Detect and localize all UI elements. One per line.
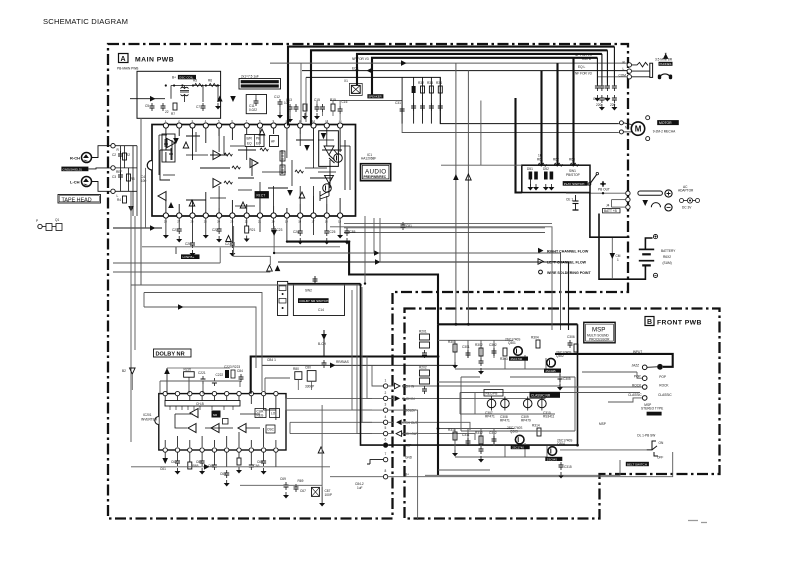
svg-text:DC 3V: DC 3V (682, 206, 692, 210)
U1 internal amp A9 (299, 192, 305, 198)
svg-text:SPEAKER: SPEAKER (368, 95, 381, 99)
IC pin numbers bottom (164, 220, 342, 224)
LOW B+ label (176, 247, 200, 259)
svg-text:R301: R301 (448, 340, 456, 344)
svg-text:R32: R32 (418, 81, 424, 85)
front input bus (555, 354, 673, 367)
svg-text:C63: C63 (196, 460, 202, 464)
svg-text:C52: C52 (604, 97, 610, 101)
U201 top pins (163, 391, 278, 395)
link pin2 riser (366, 357, 368, 391)
dolby top rail heavy (251, 357, 438, 394)
svg-text:L-CH OUT: L-CH OUT (403, 421, 418, 425)
motor RC string 4 (427, 77, 434, 123)
tone jack JAZZ (632, 364, 648, 370)
U1 internal amp A7 (250, 159, 258, 168)
oscillator section box (137, 71, 221, 118)
bus wire to switch v3 (572, 58, 574, 165)
signal vert to switch (441, 101, 522, 166)
svg-text:ADAPTOR: ADAPTOR (678, 189, 694, 193)
svg-text:R21: R21 (250, 228, 256, 232)
battery J4 label (603, 204, 621, 214)
signal vert L to front-1 (453, 63, 459, 324)
above-IC caps row pins 9-12 (314, 98, 348, 120)
front left coupling parts 2 (419, 366, 430, 395)
battery supply loop (599, 214, 653, 280)
above-IC wires pins 9-14 (317, 101, 340, 121)
U201 internal filter bar (165, 401, 240, 411)
svg-text:C25: C25 (330, 230, 336, 234)
svg-text:P: P (36, 219, 38, 223)
U201 interior wires (165, 396, 276, 447)
svg-text:C311: C311 (462, 433, 470, 437)
down arrow node (230, 96, 236, 102)
board entry node R (111, 144, 115, 148)
svg-text:3300P: 3300P (305, 385, 314, 389)
under-IC pin stubs (166, 218, 340, 242)
junction dots mid (273, 240, 579, 446)
U1 internal amp A5 (213, 179, 221, 188)
wire R-CH to board (92, 146, 111, 158)
AC adaptor note (678, 185, 700, 210)
bypass cap C21 (172, 226, 182, 243)
dolby sw cap C14 (313, 276, 318, 284)
electrolytic C26 (185, 240, 196, 257)
osc cap C7 (196, 103, 206, 111)
filter C80 (305, 366, 316, 391)
left rail arrow (128, 206, 134, 212)
svg-text:C24: C24 (293, 230, 299, 234)
U201 gain block (212, 411, 221, 418)
dolby B+ arrow drop (318, 330, 327, 368)
DOLBY NR label (154, 349, 192, 358)
under dolby cap C66 (249, 462, 260, 470)
svg-text:C2: C2 (112, 153, 116, 157)
signal vert L to front-2 (466, 71, 472, 325)
U1 resistor r-int1 (224, 153, 232, 156)
DC jack arc (651, 203, 660, 208)
svg-text:R2: R2 (126, 153, 130, 157)
cap CE1 (566, 195, 579, 210)
wire L-CH to board (92, 182, 111, 192)
osc resistor R5 (193, 79, 203, 87)
under dolby cap C64 (208, 462, 217, 470)
left vert rail to dolby (131, 191, 135, 442)
U1 extra res marks (232, 148, 303, 173)
svg-text:C3: C3 (112, 175, 116, 179)
cap C25 (324, 228, 336, 245)
AUDIO block label (361, 153, 391, 181)
svg-text:2SC1740S: 2SC1740S (507, 426, 522, 430)
left feed rail 2 (145, 168, 147, 228)
svg-text:R80: R80 (293, 367, 299, 371)
svg-text:LO: LO (271, 412, 276, 416)
bus wire main B+ to switch (516, 98, 522, 193)
bottom rail to pin8 (240, 484, 322, 486)
U1 internal amp A3 (173, 138, 179, 144)
motor RC string 5 (436, 77, 443, 123)
tone select label box (484, 390, 503, 397)
under dolby stubs (165, 453, 276, 467)
svg-text:OSC: OSC (267, 428, 275, 432)
left feed rail (140, 118, 142, 285)
input res R4 (117, 196, 127, 203)
svg-text:D51: D51 (527, 167, 533, 171)
svg-text:L-CH IN: L-CH IN (403, 385, 415, 389)
svg-text:C61: C61 (160, 467, 166, 471)
battery holder pill (638, 191, 663, 195)
svg-text:Q302: Q302 (556, 354, 564, 358)
svg-text:B+: B+ (405, 473, 409, 477)
svg-text:2SC1740S: 2SC1740S (556, 351, 571, 355)
vcc drop wire (271, 226, 277, 253)
svg-text:C67: C67 (300, 489, 306, 493)
cap C23 (271, 226, 282, 234)
svg-text:STEREO TYPE: STEREO TYPE (641, 407, 663, 411)
front transistor Q304 (545, 439, 572, 462)
svg-text:M: M (635, 125, 642, 134)
svg-text:C31: C31 (395, 101, 401, 105)
front lower cap C312 (489, 431, 497, 444)
svg-text:MOTOR: MOTOR (659, 121, 672, 125)
U1 internal amp A12 (168, 202, 174, 208)
svg-text:EQ: EQ (247, 142, 252, 146)
svg-text:R4: R4 (117, 198, 121, 202)
svg-text:7: 7 (385, 452, 387, 456)
tone jack ROCK (632, 383, 669, 389)
aux return rail (113, 271, 270, 273)
osc bus wire (171, 86, 221, 103)
ground sense wire CM1 (610, 237, 621, 279)
svg-text:NF FOR V3: NF FOR V3 (575, 72, 592, 76)
svg-text:GND(SHIELD): GND(SHIELD) (63, 167, 83, 171)
svg-text:22: 22 (165, 110, 169, 114)
dolby input feed upper (144, 293, 262, 392)
svg-text:4: 4 (385, 415, 387, 419)
svg-text:R311: R311 (448, 428, 456, 432)
svg-text:C64: C64 (208, 464, 214, 468)
switch diode cluster D52 (543, 167, 555, 191)
op-amp IC U1 main body (147, 125, 355, 217)
svg-text:INVERTER: INVERTER (141, 418, 158, 422)
DC jack terminals (626, 191, 630, 209)
cap C85 (344, 228, 356, 245)
svg-text:3: 3 (385, 403, 387, 407)
switch lever (588, 172, 598, 185)
L-ch signal to front (278, 259, 569, 330)
front upper amp input network (438, 340, 546, 382)
svg-text:R-CH IN: R-CH IN (403, 397, 416, 401)
wire shield to board (88, 168, 110, 169)
tone jack POP (634, 375, 666, 381)
res cluster R223 (224, 365, 240, 378)
board entry node L (111, 189, 115, 193)
svg-text:R6: R6 (208, 79, 212, 83)
svg-text:RP471: RP471 (500, 419, 510, 423)
input cap C2 (112, 151, 123, 159)
front lower cap C311 (462, 433, 471, 446)
mid return rail (131, 284, 361, 286)
svg-text:8: 8 (385, 469, 387, 473)
svg-text:NF FOR V3: NF FOR V3 (352, 57, 369, 61)
U1 interior wiring (160, 128, 345, 213)
svg-text:C51: C51 (593, 97, 599, 101)
svg-text:R6X2: R6X2 (663, 255, 671, 259)
phones label (655, 53, 673, 66)
tone ecap CE304 (538, 397, 555, 419)
input coupling network wires (115, 146, 137, 216)
U1 internal amp A4 (213, 151, 221, 160)
svg-text:R312: R312 (475, 431, 483, 435)
front left coupling parts (419, 330, 430, 359)
svg-text:OSC COIL: OSC COIL (179, 76, 194, 80)
wire L playback to phone jack (302, 66, 627, 73)
TAPE HEAD label (58, 195, 101, 204)
top cluster caps near pin9 (286, 98, 299, 123)
svg-text:R7: R7 (171, 112, 175, 116)
oscillator transformer T1 (180, 87, 189, 96)
U201 part number (141, 413, 158, 422)
svg-text:R314: R314 (532, 424, 540, 428)
U201 bottom pins (163, 448, 278, 452)
svg-text:2x1=7.5 1uF: 2x1=7.5 1uF (241, 75, 259, 79)
svg-text:C306: C306 (567, 335, 575, 339)
gnd under pin28 (337, 232, 343, 239)
link heavy ref wire (361, 284, 384, 446)
svg-text:R65: R65 (193, 464, 199, 468)
OSC COIL label (172, 75, 196, 80)
gnd under pin15 (163, 232, 169, 239)
svg-text:M+: M+ (625, 126, 630, 130)
svg-text:C21: C21 (172, 228, 178, 232)
svg-text:LOW B+: LOW B+ (183, 255, 195, 259)
crystal filter X1 (344, 79, 362, 95)
mute sense arrow (226, 236, 232, 242)
input cap C3 (112, 172, 123, 180)
osc row junction dots (165, 84, 219, 86)
motor RC string 1 (395, 77, 405, 123)
legend right channel flow (538, 248, 589, 254)
svg-text:IC201: IC201 (143, 413, 152, 417)
res R220 (184, 368, 195, 394)
svg-text:B/R: B/R (247, 137, 253, 141)
svg-text:CE 1: CE 1 (566, 198, 573, 202)
battery text (661, 249, 676, 265)
svg-text:C66: C66 (254, 464, 260, 468)
phone jack decoupling caps C51-C54 (597, 47, 627, 83)
low B+ rail (142, 246, 340, 248)
bottom-left link note (355, 482, 364, 490)
svg-text:GND: GND (405, 456, 413, 460)
svg-text:CLASSIC: CLASSIC (658, 393, 672, 397)
tone ecap CE303 (521, 397, 532, 423)
gray feed lines above dolby (160, 378, 290, 394)
svg-text:MAIN PWB: MAIN PWB (135, 57, 174, 64)
input label cluster (141, 175, 147, 183)
U1 transistor q-int2 (323, 184, 332, 193)
svg-text:REF: REF (116, 170, 122, 174)
svg-text:DL 1-PB SW: DL 1-PB SW (637, 434, 655, 438)
cap C81 (401, 222, 413, 230)
svg-text:2SC1740S: 2SC1740S (505, 338, 520, 342)
svg-text:RS3411: RS3411 (543, 415, 555, 419)
svg-text:C27: C27 (225, 242, 231, 246)
svg-text:C80: C80 (305, 366, 311, 370)
svg-text:CB4 1: CB4 1 (267, 358, 276, 362)
R-ch signal to front (274, 250, 560, 330)
pcb cut marks (688, 521, 707, 523)
svg-text:PB-MAIN PWB: PB-MAIN PWB (117, 67, 138, 71)
link wires right side (388, 370, 673, 520)
main PWB dash-dot border (108, 44, 628, 519)
motor RC string 3 (418, 77, 425, 123)
svg-text:DOLBY NR SWITCH: DOLBY NR SWITCH (300, 299, 329, 303)
U1 block RECT (255, 192, 269, 199)
switch feed resistor R61 (537, 154, 546, 167)
svg-text:R3: R3 (131, 177, 135, 181)
svg-text:C315: C315 (564, 465, 572, 469)
front transistor Q302 (544, 351, 571, 374)
link arrows and labels (395, 383, 415, 389)
dolby input feed lower (144, 293, 256, 369)
IC pin numbers top (165, 119, 342, 123)
svg-text:C312: C312 (489, 431, 497, 435)
tone jack wires (560, 372, 642, 402)
input res R2 (123, 153, 131, 160)
U201 mod square (223, 419, 229, 425)
front transistor Q301 (505, 338, 528, 362)
svg-text:POP: POP (659, 375, 666, 379)
U1 left input cell (162, 134, 175, 162)
label A MAIN PWB (117, 54, 174, 71)
dolby supply cluster top left (164, 368, 230, 394)
gnd under pin18 (203, 232, 209, 239)
svg-text:HA12068F: HA12068F (361, 157, 376, 161)
wire R playback to phone jack (270, 57, 627, 66)
PB OUT solder point (598, 181, 610, 191)
cap C222 (212, 373, 223, 386)
motor RC string 2 (411, 77, 416, 123)
battery cell symbol BT1 (639, 249, 654, 265)
U1 internal amp A10 (304, 145, 310, 151)
link pin1 riser (371, 365, 373, 381)
switch diode cluster D51 (527, 167, 539, 191)
front upper out caps (567, 335, 578, 352)
DC in diode arrow (642, 200, 648, 206)
svg-text:C5: C5 (145, 104, 149, 108)
svg-text:R303: R303 (500, 357, 508, 361)
svg-text:Q304: Q304 (557, 442, 565, 446)
tone jack CLASSIC (628, 393, 672, 400)
front B+ bus (438, 324, 578, 475)
switch feed resistor R62 (553, 158, 562, 167)
speaker select label (367, 94, 383, 98)
svg-text:5: 5 (385, 426, 387, 430)
external remote jack cluster (36, 218, 62, 231)
osc cap C5 (145, 103, 155, 111)
osc res R7 (171, 103, 177, 116)
IC U1 bottom pins 15-28 (163, 213, 342, 218)
board entry node shield (111, 166, 115, 170)
play switch label (563, 169, 588, 186)
dolby IC U201 body (155, 394, 286, 450)
power switch box SW1 (522, 165, 590, 192)
U1 internal amp A11 (189, 200, 195, 206)
svg-text:EQ L: EQ L (352, 66, 359, 70)
link wires left side (330, 285, 383, 477)
svg-text:PRE/PWR/REC: PRE/PWR/REC (364, 175, 387, 179)
svg-text:220: 220 (596, 103, 602, 107)
svg-text:R50 B: R50 B (582, 57, 591, 61)
svg-text:2SC945: 2SC945 (546, 369, 557, 373)
svg-text:C22: C22 (212, 228, 218, 232)
svg-text:RP479: RP479 (521, 419, 531, 423)
res R21 (244, 226, 256, 242)
svg-text:CH-B: CH-B (196, 402, 204, 406)
C67 filter (300, 405, 332, 507)
svg-text:R220: R220 (184, 368, 192, 372)
svg-text:C7: C7 (196, 105, 200, 109)
front PWB dash-dot border (405, 309, 720, 519)
svg-text:C16: C16 (342, 100, 348, 104)
svg-text:AF: AF (271, 140, 275, 144)
svg-text:C62: C62 (171, 460, 177, 464)
board-link connector pins 1-8 (383, 379, 388, 479)
svg-text:J4: J4 (606, 204, 610, 208)
dolby switch SW2 (293, 284, 344, 316)
svg-text:R-CH OUT: R-CH OUT (403, 432, 419, 436)
front upper res R301 (448, 340, 458, 369)
cap C24 (293, 228, 303, 245)
power return bus (590, 193, 630, 238)
svg-text:C12: C12 (274, 95, 280, 99)
switch feed resistor R63 (569, 158, 578, 167)
front bottom return wire (425, 460, 620, 475)
U1 resistor network r-int3 (280, 151, 285, 161)
tape select network box (246, 95, 266, 114)
svg-text:BATT +B: BATT +B (604, 209, 617, 213)
U201 amp A201 (190, 409, 198, 418)
svg-text:2: 2 (385, 391, 387, 395)
svg-text:RR/BIAS: RR/BIAS (336, 360, 349, 364)
dolby left feed arrow (122, 368, 135, 390)
svg-text:SW2: SW2 (305, 289, 312, 293)
drop to triangles (234, 226, 271, 265)
cap C221 (198, 371, 206, 394)
dolby out coupling wires (286, 398, 372, 433)
headphone icon (658, 74, 672, 79)
svg-text:C221: C221 (198, 371, 206, 375)
tape head L-CH terminal (70, 177, 92, 187)
svg-text:MSP: MSP (592, 327, 605, 334)
U1 resistor network r-int4 (280, 165, 285, 175)
rec/pb select switch label box (239, 75, 281, 90)
front lower bias parts (478, 424, 572, 479)
svg-text:X1: X1 (344, 79, 348, 83)
plus terminal (665, 190, 672, 197)
front lower res R312 (475, 431, 483, 444)
svg-text:BELT SWITCH: BELT SWITCH (627, 462, 647, 466)
U1 output amp lower (320, 175, 334, 201)
svg-text:Q1: Q1 (55, 218, 59, 222)
label B FRONT PWB (645, 317, 702, 327)
front transistor Q303 (507, 426, 530, 450)
svg-text:TAPE HEAD: TAPE HEAD (62, 197, 92, 203)
legend left channel flow (538, 259, 587, 265)
svg-text:R201: R201 (419, 330, 427, 334)
svg-text:INPUT: INPUT (633, 350, 643, 354)
input res R3 (127, 174, 135, 181)
